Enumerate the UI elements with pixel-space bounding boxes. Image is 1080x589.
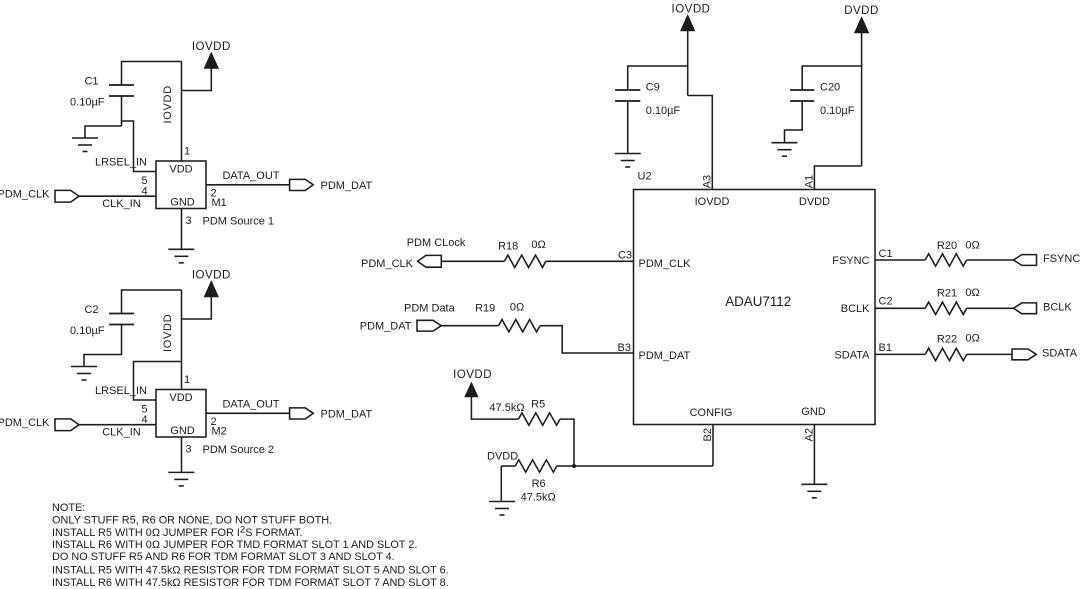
svg-text:1: 1 (184, 374, 190, 386)
power symbol IOVDD (source 2) (205, 282, 218, 297)
svg-text:PDM_DAT: PDM_DAT (360, 321, 412, 333)
svg-text:VDD: VDD (169, 392, 192, 404)
resistor R18 (504, 255, 546, 267)
PDM Data description (404, 303, 456, 315)
junction R5/R6 (572, 464, 576, 468)
M1 pin number 1 (184, 146, 190, 158)
wire U2 pin A2 to ground (813, 425, 815, 485)
PDM Source 2 description (203, 444, 275, 456)
svg-text:DVDD: DVDD (799, 196, 830, 208)
ground under U2 A2 (801, 484, 827, 498)
svg-text:R5: R5 (531, 399, 545, 411)
capacitor C1 (109, 85, 134, 96)
wire C20 top to DVDD (802, 66, 861, 90)
C20 reference label (820, 82, 840, 94)
svg-text:R18: R18 (498, 240, 518, 252)
port PDM_DAT (chip side) (417, 320, 441, 331)
LRSEL_IN net label (source 1) (95, 156, 147, 168)
IOVDD power label (top) (672, 3, 711, 15)
M2 pin number 5 (141, 404, 147, 416)
op-amp-style IC U2 ADAU7112 body (634, 190, 876, 425)
U2 pin name PDM_CLK (639, 258, 692, 270)
U2 pin number C2 (879, 296, 893, 308)
wire M2 GND pin 3 to ground (181, 437, 183, 472)
IOVDD net label (rotated) on wire 2 (162, 314, 174, 352)
svg-text:0.10µF: 0.10µF (646, 105, 681, 117)
wire C1 bottom stub (121, 97, 123, 127)
pdm microphone M1 (156, 161, 206, 209)
U2 pin number B2 (rotated) (702, 428, 714, 441)
svg-text:PDM_CLK: PDM_CLK (0, 417, 50, 429)
DATA_OUT net label (source 1) (222, 170, 279, 182)
svg-text:PDM Data: PDM Data (404, 303, 456, 315)
svg-text:PDM_CLK: PDM_CLK (639, 258, 692, 270)
svg-text:C3: C3 (618, 249, 632, 261)
R19 reference label (475, 303, 495, 315)
C9 value label 0.10uF (646, 105, 681, 117)
CLK_IN net label (source 2) (102, 427, 141, 439)
M2 pin number 1 (184, 374, 190, 386)
wire junction to IOVDD arrow (182, 68, 212, 91)
pdm microphone M2 (156, 390, 206, 438)
port PDM_DAT (source 2) (290, 408, 314, 419)
R20 value label 0 ohm (965, 240, 979, 252)
M2 pin number 4 (141, 414, 147, 426)
svg-text:C2: C2 (84, 304, 98, 316)
svg-text:FSYNC: FSYNC (832, 255, 869, 267)
svg-text:C1: C1 (84, 76, 98, 88)
M2 GND pin name (170, 425, 195, 437)
svg-text:CLK_IN: CLK_IN (102, 427, 141, 439)
PDM_CLK net label (source 1) (0, 188, 50, 200)
wire IOVDD arrow down (687, 31, 689, 96)
U2 pin name SDATA (834, 349, 870, 361)
svg-text:NOTE:: NOTE: (52, 502, 85, 514)
svg-text:U2: U2 (638, 170, 652, 182)
wire IOVDD vertical to M1 VDD pin 1 (181, 62, 183, 162)
IOVDD net label (rotated) on wire (162, 85, 174, 123)
svg-text:IOVDD: IOVDD (162, 85, 174, 123)
U2 pin name BCLK (841, 303, 870, 315)
FSYNC net label (1043, 253, 1080, 265)
svg-text:IOVDD: IOVDD (453, 369, 492, 381)
svg-text:PDM Source 2: PDM Source 2 (203, 444, 275, 456)
wire jog to U2 pin A3 (688, 96, 713, 190)
wire CLK_IN to M1 pin 4 (79, 195, 156, 197)
resistor R6 (515, 460, 557, 472)
M1 VDD pin name (169, 164, 192, 176)
svg-text:C9: C9 (646, 82, 660, 94)
wire R6 to U2 pin B2 CONFIG (557, 465, 713, 467)
M1 pin number 3 (186, 215, 192, 227)
C1 value label 0.10uF (70, 96, 105, 108)
wire port to R19 (441, 325, 498, 327)
C2 reference label (84, 304, 98, 316)
svg-text:R20: R20 (937, 240, 957, 252)
DVDD net label (config) (487, 450, 518, 462)
port FSYNC (1014, 255, 1037, 266)
U2 pin name GND (801, 406, 826, 418)
svg-text:0.10µF: 0.10µF (70, 325, 105, 337)
wire junction to IOVDD arrow 2 (182, 296, 212, 319)
svg-text:A2: A2 (803, 428, 815, 441)
power symbol IOVDD (top) (681, 16, 694, 31)
R5 reference label (531, 399, 545, 411)
ground under C9 (615, 154, 641, 168)
PDM CLock description (407, 237, 466, 249)
ground under C20 (772, 143, 798, 157)
M1 reference label (212, 197, 227, 209)
svg-text:INSTALL R6 WITH 47.5kΩ RESISTO: INSTALL R6 WITH 47.5kΩ RESISTOR FOR TDM … (52, 577, 449, 589)
wire R19 to U2 pin B3 (540, 326, 634, 353)
svg-text:0Ω: 0Ω (510, 301, 524, 313)
wire IOVDD to R5 (471, 396, 518, 420)
U2 pin number A2 (rotated) (803, 428, 815, 441)
svg-text:CONFIG: CONFIG (690, 407, 733, 419)
svg-text:PDM_DAT: PDM_DAT (321, 408, 373, 420)
wire C1 bottom to LRSEL_IN pin 5 (122, 121, 157, 172)
ground under M1 (168, 249, 194, 262)
svg-text:1: 1 (184, 146, 190, 158)
wire CLK_IN to M2 pin 4 (79, 424, 156, 426)
svg-text:M2: M2 (212, 426, 227, 438)
wire C1 bottom to ground (85, 126, 122, 138)
CLK_IN net label (source 1) (102, 198, 141, 210)
U2 pin name FSYNC (832, 255, 869, 267)
wire C9 top to IOVDD (628, 66, 688, 90)
capacitor C20 (790, 90, 814, 101)
svg-text:LRSEL_IN: LRSEL_IN (95, 156, 147, 168)
svg-text:3: 3 (186, 444, 192, 456)
wire U2 pin C2 to R21 (875, 307, 925, 309)
svg-text:B1: B1 (879, 342, 892, 354)
power symbol DVDD (top) (855, 18, 868, 33)
resistor R20 (925, 254, 967, 266)
svg-text:FSYNC: FSYNC (1043, 253, 1080, 265)
svg-text:0.10µF: 0.10µF (820, 105, 855, 117)
svg-text:47.5kΩ: 47.5kΩ (489, 402, 524, 414)
wire LRSEL_IN tie to IOVDD (source 2) (134, 362, 182, 401)
wire M1 GND pin 3 to ground (181, 209, 183, 250)
svg-text:ADAU7112: ADAU7112 (725, 294, 791, 309)
svg-text:DATA_OUT: DATA_OUT (222, 170, 279, 182)
port PDM_CLK (source 1) (55, 190, 79, 202)
port PDM_CLK (chip side) (418, 255, 442, 267)
svg-text:PDM_DAT: PDM_DAT (321, 180, 373, 192)
R18 value label 0 ohm (531, 239, 545, 251)
svg-text:SDATA: SDATA (1042, 348, 1078, 360)
note text block (52, 502, 449, 589)
ground under C2 (71, 367, 97, 381)
wire C2 top to IOVDD rail (122, 290, 182, 314)
svg-text:C1: C1 (879, 248, 893, 260)
PDM_DAT net label (source 2) (321, 408, 373, 420)
svg-text:R6: R6 (532, 478, 546, 490)
R22 reference label (937, 334, 957, 346)
wire U2 pin B2 down (712, 425, 714, 467)
svg-text:GND: GND (170, 425, 195, 437)
IOVDD power label (192, 41, 231, 53)
svg-text:IOVDD: IOVDD (672, 3, 711, 15)
ground under R6 (489, 502, 515, 516)
R6 reference label (532, 478, 546, 490)
wire DVDD end of R6 (501, 465, 515, 467)
wire R20 to FSYNC port (967, 259, 1014, 261)
svg-text:0Ω: 0Ω (965, 240, 979, 252)
wire jog to U2 pin A1 (814, 166, 861, 190)
svg-text:PDM_CLK: PDM_CLK (361, 258, 414, 270)
U2 pin number A3 (rotated) (702, 175, 714, 188)
svg-text:BCLK: BCLK (1043, 301, 1072, 313)
IOVDD power label (config) (453, 369, 492, 381)
U2 pin name PDM_DAT (639, 350, 691, 362)
svg-text:IOVDD: IOVDD (192, 270, 231, 282)
svg-text:M1: M1 (212, 197, 227, 209)
svg-text:VDD: VDD (169, 164, 192, 176)
M2 reference label (212, 426, 227, 438)
C20 value label 0.10uF (820, 105, 855, 117)
SDATA net label (1042, 348, 1078, 360)
wire U2 pin C1 to R20 (875, 259, 925, 261)
wire DVDD arrow down (861, 33, 863, 167)
DATA_OUT net label (source 2) (222, 399, 279, 411)
M1 pin number 2 (211, 188, 217, 200)
PDM Source 1 description (203, 216, 275, 228)
port PDM_DAT (source 1) (290, 179, 314, 190)
svg-text:R19: R19 (475, 303, 495, 315)
R20 reference label (937, 240, 957, 252)
M1 pin number 5 (141, 175, 147, 187)
R18 reference label (498, 240, 518, 252)
U2 part name ADAU7112 (725, 294, 791, 309)
U2 reference label (638, 170, 652, 182)
svg-text:LRSEL_IN: LRSEL_IN (95, 385, 147, 397)
U2 pin number B3 (618, 342, 631, 354)
R19 value label 0 ohm (510, 301, 524, 313)
LRSEL_IN net label (source 2) (95, 385, 147, 397)
R21 reference label (937, 288, 957, 300)
port PDM_CLK (source 2) (55, 419, 79, 431)
svg-text:B3: B3 (618, 342, 631, 354)
U2 pin number C1 (879, 248, 893, 260)
svg-text:DO NO STUFF R5 AND R6 FOR TDM: DO NO STUFF R5 AND R6 FOR TDM FORMAT SLO… (52, 551, 395, 563)
port BCLK (1014, 303, 1037, 314)
IOVDD power label 2 (192, 270, 231, 282)
svg-text:DVDD: DVDD (844, 5, 879, 17)
resistor R22 (925, 348, 967, 360)
svg-text:GND: GND (170, 197, 195, 209)
wire R5 to junction (560, 419, 574, 466)
svg-text:ONLY STUFF R5, R6 OR NONE, DO: ONLY STUFF R5, R6 OR NONE, DO NOT STUFF … (52, 515, 332, 527)
svg-text:BCLK: BCLK (841, 303, 870, 315)
power symbol IOVDD (config) (465, 384, 477, 397)
svg-text:C20: C20 (820, 82, 840, 94)
M1 GND pin name (170, 197, 195, 209)
wire R21 to BCLK port (967, 307, 1014, 309)
resistor R21 (925, 302, 967, 314)
wire port to R18 (441, 260, 504, 262)
PDM_CLK net label (chip side) (361, 258, 414, 270)
wire C1 top to IOVDD rail (122, 62, 182, 86)
svg-text:R21: R21 (937, 288, 957, 300)
ground under C1 (72, 138, 98, 152)
R21 value label 0 ohm (965, 287, 979, 299)
svg-text:IOVDD: IOVDD (162, 314, 174, 352)
svg-text:IOVDD: IOVDD (695, 196, 730, 208)
svg-text:B2: B2 (702, 428, 714, 441)
M1 pin number 4 (141, 185, 147, 197)
svg-text:SDATA: SDATA (834, 349, 870, 361)
svg-text:INSTALL R5 WITH 47.5kΩ RESISTO: INSTALL R5 WITH 47.5kΩ RESISTOR FOR TDM … (52, 565, 449, 577)
svg-text:3: 3 (186, 215, 192, 227)
wire C9 bottom to ground (627, 101, 629, 154)
resistor R19 (499, 320, 541, 332)
wire DATA_OUT from M1 pin 2 (206, 184, 290, 186)
wire DATA_OUT from M2 pin 2 (206, 412, 290, 414)
BCLK net label (1043, 301, 1072, 313)
wire IOVDD vertical to M2 VDD pin 1 (181, 290, 183, 390)
svg-text:C2: C2 (879, 296, 893, 308)
capacitor C2 (109, 314, 134, 325)
wire DVDD label to ground (500, 466, 502, 502)
U2 pin name IOVDD (695, 196, 730, 208)
C1 reference label (84, 76, 98, 88)
ground under M2 (168, 472, 194, 486)
svg-text:0Ω: 0Ω (965, 333, 979, 345)
svg-text:PDM CLock: PDM CLock (407, 237, 466, 249)
U2 pin name DVDD (799, 196, 830, 208)
wire C20 bottom to ground (785, 101, 803, 143)
port SDATA (1012, 349, 1036, 360)
svg-text:PDM_DAT: PDM_DAT (639, 350, 691, 362)
C9 reference label (646, 82, 660, 94)
M2 pin number 3 (186, 444, 192, 456)
capacitor C9 (615, 90, 640, 101)
wire R22 to SDATA port (967, 353, 1012, 355)
resistor R5 (519, 413, 561, 425)
svg-text:INSTALL R6 WITH 0Ω JUMPER FOR: INSTALL R6 WITH 0Ω JUMPER FOR TMD FORMAT… (52, 539, 417, 551)
U2 pin number B1 (879, 342, 892, 354)
wire C2 bottom to ground (84, 325, 122, 367)
U2 pin name CONFIG (690, 407, 733, 419)
svg-text:0.10µF: 0.10µF (70, 96, 105, 108)
U2 pin number C3 (618, 249, 632, 261)
svg-text:IOVDD: IOVDD (192, 41, 231, 53)
svg-text:R22: R22 (937, 334, 957, 346)
R22 value label 0 ohm (965, 333, 979, 345)
svg-text:DVDD: DVDD (487, 450, 518, 462)
power symbol IOVDD (source 1) (205, 54, 218, 69)
svg-text:PDM Source 1: PDM Source 1 (203, 216, 275, 228)
svg-text:DATA_OUT: DATA_OUT (222, 399, 279, 411)
DVDD power label (top) (844, 5, 879, 17)
U2 pin number A1 (rotated) (804, 175, 816, 188)
svg-text:47.5kΩ: 47.5kΩ (521, 492, 556, 504)
wire R18 to U2 pin C3 (546, 260, 634, 262)
svg-text:INSTALL R5 WITH 0Ω JUMPER FOR: INSTALL R5 WITH 0Ω JUMPER FOR I2S FORMAT… (52, 525, 302, 539)
svg-text:PDM_CLK: PDM_CLK (0, 188, 50, 200)
R5 value label 47.5k (489, 402, 524, 414)
svg-text:0Ω: 0Ω (965, 287, 979, 299)
PDM_DAT net label (source 1) (321, 180, 373, 192)
wire U2 pin B1 to R22 (875, 353, 925, 355)
C2 value label 0.10uF (70, 325, 105, 337)
svg-text:GND: GND (801, 406, 826, 418)
PDM_CLK net label (source 2) (0, 417, 50, 429)
M2 VDD pin name (169, 392, 192, 404)
M2 pin number 2 (211, 416, 217, 428)
svg-text:0Ω: 0Ω (531, 239, 545, 251)
R6 value label 47.5k (521, 492, 556, 504)
svg-text:CLK_IN: CLK_IN (102, 198, 141, 210)
PDM_DAT net label (chip side) (360, 321, 412, 333)
